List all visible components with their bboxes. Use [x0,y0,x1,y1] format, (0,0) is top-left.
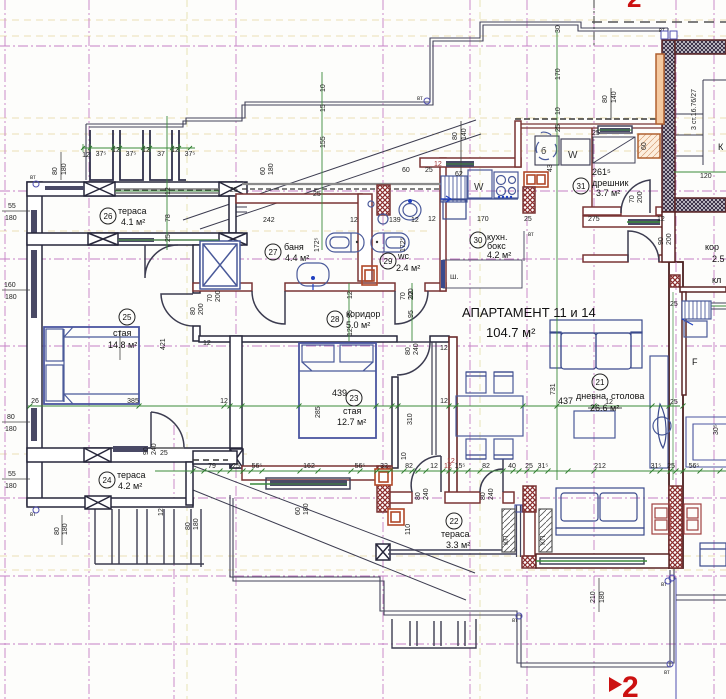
svg-text:24: 24 [103,476,112,485]
svg-text:14.8 м²: 14.8 м² [108,340,137,350]
kitchen north wall [420,158,521,167]
room23 south wall band with window [242,466,392,480]
svg-text:25: 25 [670,301,678,308]
svg-text:180: 180 [5,215,17,222]
svg-text:стая: стая [343,406,362,416]
room23 east wall [392,377,398,468]
svg-text:вт: вт [30,175,36,181]
svg-text:210: 210 [590,591,597,603]
svg-text:82: 82 [482,463,490,470]
svg-text:731: 731 [550,383,557,395]
svg-text:80: 80 [452,132,459,140]
sink wc 29 [399,200,421,220]
svg-text:12: 12 [440,345,448,352]
svg-text:4.1 м²: 4.1 м² [121,217,145,227]
window line top band [115,188,219,190]
svg-text:80: 80 [602,95,609,103]
door arc into room 25 [161,294,193,326]
armchairs bottom right [652,504,701,534]
svg-text:2: 2 [622,671,639,699]
svg-text:АПАРТАМЕНТ 11 и 14: АПАРТАМЕНТ 11 и 14 [462,305,596,320]
svg-text:12: 12 [408,291,415,299]
svg-text:80: 80 [52,167,59,175]
room circles [99,178,608,529]
svg-text:тераса: тераса [117,470,146,480]
svg-text:25: 25 [160,450,168,457]
svg-text:80: 80 [185,522,192,530]
svg-text:180: 180 [599,591,606,603]
svg-text:КП: КП [540,536,547,545]
svg-text:170: 170 [555,68,562,80]
long diagonals upper [183,120,481,229]
green centerlines in windows [115,190,219,192]
top wall band (terrace 26 north) [27,182,242,196]
svg-text:70: 70 [207,294,214,302]
svg-text:25: 25 [670,399,678,406]
neighbour window right [686,303,726,309]
door corridor->living [397,342,430,375]
svg-text:25: 25 [230,187,238,194]
red drain box wc [362,266,377,285]
lower terrace railing comb [392,619,476,648]
vertical dim x=611 (80/140) [610,88,612,120]
svg-text:240: 240 [413,343,420,355]
svg-text:60: 60 [402,167,410,174]
svg-text:261⁵: 261⁵ [592,167,611,177]
svg-text:240: 240 [423,488,430,500]
svg-text:4.4 м²: 4.4 м² [285,253,309,263]
neighbour texts [692,142,725,367]
stepped roof outline above (double thin line) [86,22,668,180]
sink bath 27 [297,263,329,286]
wall below dressing with window [583,216,669,227]
living south wall with window [536,554,669,568]
orange filled wall strip left of hatched wall [656,54,664,124]
svg-text:23: 23 [350,394,359,403]
svg-text:15: 15 [320,104,327,112]
svg-text:12: 12 [203,340,211,347]
svg-text:4.2 м²: 4.2 м² [118,481,142,491]
kitchen lower counter [443,260,522,288]
wall band right of terrace24 (y452-466) [193,451,237,464]
bath/wc divider wall [358,194,372,281]
svg-text:32: 32 [380,463,388,470]
svg-text:200: 200 [198,303,205,315]
svg-text:80: 80 [54,527,61,535]
svg-text:172⁵: 172⁵ [314,237,321,252]
vertical dim x=322 [321,72,323,250]
top right big hatched walls (neighbour) [662,40,675,212]
svg-text:15⁵: 15⁵ [455,463,466,470]
left dim labels fractions [2,152,120,479]
svg-text:70: 70 [629,195,636,203]
svg-text:стая: стая [113,328,132,338]
left wall window bars [31,210,37,441]
svg-text:21: 21 [596,378,605,387]
right side dim verticals [672,292,674,480]
svg-text:12: 12 [158,508,165,516]
svg-text:10: 10 [401,452,408,460]
svg-text:200: 200 [666,233,673,245]
horizontal dim numbers along y=406 [31,398,613,406]
wardrobe dressing [593,137,635,163]
svg-text:90: 90 [143,447,150,455]
vertical dim line near x=120 labels 80/180 (left lower) [61,515,63,545]
dressing window [598,125,632,134]
svg-text:37⁵: 37⁵ [185,151,196,158]
coffee table [574,411,615,438]
svg-text:10: 10 [555,107,562,115]
svg-text:155: 155 [320,136,327,148]
svg-text:180: 180 [5,426,17,433]
svg-text:95: 95 [347,310,354,318]
svg-text:вт: вт [417,96,423,102]
door room25->terrace24 [151,412,184,448]
svg-text:29: 29 [384,257,393,266]
dressing west thin wall [591,128,593,215]
svg-text:3.3 м²: 3.3 м² [446,540,470,550]
outer left wall [27,182,42,505]
svg-text:12: 12 [428,216,436,223]
svg-text:кл: кл [712,275,721,285]
svg-text:12: 12 [447,458,455,465]
neighbour roof outline top right [592,21,726,23]
vertical dim x=461 (80/140) [460,121,462,175]
boiler niche box [535,136,559,165]
svg-text:180: 180 [303,503,310,515]
window sill bar room25 bottom window (under window line) [0,0,1,1]
kitchen west wall [440,158,446,291]
horizontal dim numbers along y=471 [208,463,699,470]
svg-text:172⁵: 172⁵ [400,237,407,252]
svg-text:К: К [718,142,724,152]
svg-text:55: 55 [8,203,16,210]
orange dashed vertical grid lines [187,0,480,699]
neighbour wall below stairs [680,287,726,292]
checker column below red frames [523,187,535,213]
svg-text:12: 12 [82,152,90,159]
svg-text:12: 12 [411,217,419,224]
room25 south wall band [27,448,242,462]
living south-west wall with 2 terrace doors [390,492,412,503]
X piers top band [84,182,247,196]
door arcs from corridor to bath and wc [252,291,285,324]
svg-text:дрешник: дрешник [592,178,628,188]
bed room 25 [44,327,139,404]
kitchen counter line [440,198,518,200]
laundry W in nook [561,139,590,165]
terrace 24 east wall [186,462,193,505]
svg-text:12: 12 [347,328,354,336]
svg-text:ш.: ш. [450,272,459,281]
svg-text:110: 110 [405,524,412,535]
long diagonals lower [186,463,475,600]
checker wall band [523,486,536,512]
svg-text:95: 95 [408,310,415,318]
svg-text:200: 200 [215,290,222,302]
svg-text:30: 30 [555,25,562,33]
svg-text:275: 275 [588,216,600,223]
svg-text:25: 25 [123,313,132,322]
svg-text:12: 12 [165,187,172,195]
svg-text:242: 242 [263,217,275,224]
svg-text:140: 140 [611,91,618,103]
svg-text:43: 43 [547,164,554,172]
dressing/living wall with door [583,255,628,262]
svg-text:W: W [474,182,484,193]
TV cabinet + plant [650,356,668,468]
orange dashed horizontal grid lines [0,20,726,570]
svg-text:200: 200 [637,191,644,203]
svg-text:60: 60 [260,167,267,175]
svg-text:25: 25 [165,234,172,242]
svg-text:139: 139 [389,217,401,224]
svg-text:162: 162 [303,463,315,470]
svg-text:25: 25 [524,216,532,223]
svg-text:12: 12 [220,398,228,405]
svg-text:212: 212 [594,463,606,470]
toilet wc 29 [371,233,409,252]
svg-text:439: 439 [332,388,347,398]
svg-text:60: 60 [295,507,302,515]
svg-text:3.7 м²: 3.7 м² [596,188,620,198]
svg-text:F: F [692,357,698,367]
strike line on 26.6 [588,407,622,409]
radiator neighbour [682,301,711,319]
svg-text:37: 37 [157,151,165,158]
dining table [456,396,523,436]
svg-text:12: 12 [657,216,665,223]
svg-text:385: 385 [127,398,139,405]
room labels [108,167,644,550]
svg-text:12: 12 [605,399,613,406]
svg-text:31⁵: 31⁵ [538,463,549,470]
lower big terrace outline (double line) [230,495,674,663]
svg-text:37⁵: 37⁵ [96,151,107,158]
kitchen fridge with hatch [441,176,467,202]
dashed overhead lines in band windows [115,189,219,191]
svg-text:12: 12 [112,147,120,154]
svg-text:104.7 м²: 104.7 м² [486,325,536,340]
svg-text:62: 62 [455,171,463,178]
long horizontal dim y=406 [28,405,680,407]
shower cabin bath [200,241,240,289]
vertical dim x=167 [166,116,168,250]
washing machine W kitchen [468,170,492,198]
terrace26/room25 wall band [27,233,242,245]
left fraction labels [4,203,17,490]
neighbour sofa bottom right [700,543,726,566]
boiler б broken circle [536,142,556,160]
svg-text:437: 437 [558,396,573,406]
svg-text:180: 180 [5,294,17,301]
chairs [466,372,513,459]
top battlement comb below roof line [90,130,186,180]
svg-text:180: 180 [5,483,17,490]
terrace 26 east wall [229,196,236,233]
top comb dim line [82,147,195,149]
dim numbers top comb [82,147,195,159]
blue pipe lines bottom right [667,575,676,699]
svg-text:3 ст.16.76/27: 3 ст.16.76/27 [691,89,698,130]
svg-text:26: 26 [104,212,113,221]
svg-text:82: 82 [405,463,413,470]
rotated dim labels [52,25,720,603]
svg-text:25: 25 [555,124,562,132]
svg-text:240: 240 [488,488,495,500]
svg-text:180: 180 [193,518,200,530]
svg-text:78: 78 [165,214,172,222]
balcony comb below terrace 24 [95,509,204,567]
svg-text:2.4 м²: 2.4 м² [396,263,420,273]
svg-text:12: 12 [142,147,150,154]
svg-text:120: 120 [700,173,712,180]
bath south wall segments [193,283,252,291]
stair treads top right [676,80,726,165]
svg-text:37⁵: 37⁵ [126,151,137,158]
toilet bath 27 [326,233,364,252]
dressing north wall [515,118,662,120]
orange shaft (60) [638,134,660,158]
svg-text:12: 12 [171,147,179,154]
door in room25 north band [145,245,178,278]
bath north wall [236,194,362,203]
svg-text:кор: кор [705,242,719,252]
svg-text:25: 25 [313,191,321,198]
svg-text:12: 12 [440,398,448,405]
svg-text:31⁵: 31⁵ [651,463,662,470]
svg-text:421: 421 [160,338,167,350]
neighbour sofa right [686,417,726,467]
svg-text:W: W [568,150,578,161]
svg-text:79: 79 [208,463,216,470]
svg-text:22: 22 [450,517,459,526]
svg-text:55: 55 [8,471,16,478]
terrace22 east wall [516,505,518,557]
svg-text:31: 31 [577,182,586,191]
red window frames at kitchen corner [524,172,548,187]
svg-text:80: 80 [480,492,487,500]
svg-text:28: 28 [331,315,340,324]
svg-text:310: 310 [407,413,414,425]
КП boxes terrace 22 [502,509,552,552]
svg-text:285: 285 [315,406,322,418]
svg-text:12: 12 [347,291,354,299]
main right wall [669,262,683,568]
svg-text:25: 25 [592,130,600,137]
svg-text:180: 180 [62,523,69,535]
svg-text:б: б [541,146,546,156]
overhead slab edge above wc [242,183,446,185]
svg-text:12: 12 [434,161,442,168]
bed room 23 [299,343,376,438]
svg-text:80: 80 [415,492,422,500]
svg-text:27: 27 [269,248,278,257]
svg-text:30: 30 [474,236,483,245]
terrace 24 south wall [27,498,193,507]
svg-text:25: 25 [232,463,240,470]
svg-text:25: 25 [525,463,533,470]
svg-text:80: 80 [7,414,15,421]
red checker column + boxes left of terrace22 [377,466,390,512]
svg-text:25: 25 [667,463,675,470]
svg-text:56⁵: 56⁵ [252,463,263,470]
svg-text:2.5: 2.5 [712,254,725,264]
long horizontal dim y=471 [155,470,726,472]
hatched column left of wc [377,185,390,215]
sofa 2 (south) [556,488,644,535]
stove 4 burners [494,172,518,198]
svg-text:56⁵: 56⁵ [689,463,700,470]
sofa living (north) [550,320,642,369]
svg-text:90: 90 [658,237,665,245]
scattered dim numbers [158,130,712,516]
svg-text:56⁵: 56⁵ [355,463,366,470]
svg-text:баня: баня [284,242,304,252]
svg-text:170: 170 [477,216,489,223]
svg-text:70: 70 [400,292,407,300]
svg-text:160: 160 [4,282,16,289]
svg-text:4.2 м²: 4.2 м² [487,250,511,260]
dressing south wall + door [583,207,621,215]
svg-text:КП: КП [503,536,510,545]
svg-text:80: 80 [190,307,197,315]
room 25 east wall with door opening [193,245,200,293]
svg-text:вт: вт [528,232,534,238]
svg-text:тераса: тераса [441,529,470,539]
210/180 dim bottom [598,578,600,612]
svg-text:40: 40 [508,463,516,470]
svg-text:180: 180 [268,163,275,175]
terrace 22 south thin edge [388,549,516,551]
svg-text:вт: вт [664,670,670,676]
svg-text:30⁵: 30⁵ [713,424,720,435]
svg-text:180: 180 [61,163,68,175]
corridor south wall / room23 north wall [199,336,397,342]
living west wall [449,337,457,494]
svg-text:25: 25 [425,167,433,174]
svg-text:140: 140 [461,128,468,140]
svg-text:12: 12 [430,463,438,470]
vertical dim x=557 [556,30,558,480]
svg-text:12: 12 [350,217,358,224]
svg-text:80: 80 [405,347,412,355]
svg-text:26: 26 [31,398,39,405]
svg-text:60: 60 [641,142,648,150]
svg-text:10: 10 [320,84,327,92]
svg-text:240: 240 [151,443,158,455]
svg-text:2: 2 [627,0,641,13]
svg-text:12.7 м²: 12.7 м² [337,417,366,427]
svg-text:тераса: тераса [118,206,147,216]
kitchen step wall up [515,121,521,167]
room23 west wall [230,336,242,468]
